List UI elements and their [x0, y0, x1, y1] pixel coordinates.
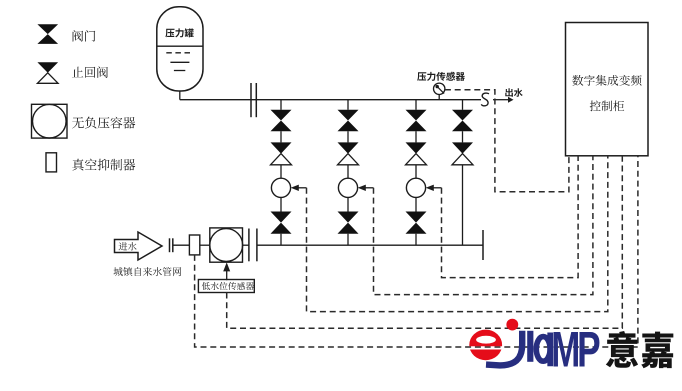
branch 1 riser	[280, 100, 282, 110]
label 出水	[505, 88, 522, 97]
wire	[347, 165, 349, 178]
legend label 止回阀	[72, 66, 108, 78]
vacuum suppressor on inlet	[189, 235, 199, 255]
bottom pipe end cap	[482, 230, 484, 260]
pipe union on inlet	[169, 238, 171, 252]
wire	[173, 244, 190, 246]
wire	[415, 131, 417, 142]
legend check-valve symbol	[37, 62, 58, 73]
wire pump 1 to cabinet (dashed)	[307, 156, 608, 312]
logo letter a (navy)	[536, 337, 550, 362]
wire pump 2 to cabinet (dashed)	[374, 156, 593, 295]
pump 2 control arrow	[366, 187, 374, 189]
wire	[462, 131, 464, 142]
wire	[280, 131, 282, 142]
legend valve symbol	[37, 24, 58, 44]
check valve branch 1	[271, 142, 292, 153]
wire	[415, 197, 417, 211]
wire bypass down	[462, 165, 464, 245]
logo character 意	[606, 331, 638, 368]
branch 4 bypass riser	[462, 100, 464, 110]
branch 3 riser	[415, 100, 417, 110]
pump 1	[271, 178, 290, 197]
wire low water sensor to cabinet (dashed)	[227, 156, 623, 328]
legend vacuum suppressor symbol	[46, 153, 57, 172]
wire	[347, 197, 349, 211]
logo letter P (navy)	[579, 332, 599, 367]
wire	[280, 165, 282, 178]
logo letter e (red)	[469, 330, 502, 361]
wire tank drop	[179, 91, 181, 100]
wire pressure sensor to cabinet (dashed)	[445, 90, 569, 192]
wire	[347, 234, 349, 246]
wire top manifold pipe	[180, 99, 481, 101]
valve branch 4	[452, 110, 473, 131]
inlet arrow 进水	[115, 232, 163, 260]
control cabinet box	[566, 23, 649, 156]
sensor arrow to vessel	[226, 271, 228, 281]
wire	[415, 165, 417, 178]
wire vacuum suppressor to cabinet (dashed)	[195, 156, 638, 347]
wire	[347, 131, 349, 142]
logo letter M (navy)	[553, 332, 578, 367]
flange pair after vessel	[248, 229, 250, 262]
pipe break S symbol	[481, 93, 489, 106]
wire	[415, 234, 417, 246]
low water level sensor box	[198, 280, 254, 293]
wire pump 3 to cabinet (dashed)	[442, 156, 579, 278]
label 低水位传感器	[202, 282, 254, 290]
pump 3 control arrow	[434, 187, 442, 189]
legend no-negative-pressure vessel symbol	[32, 104, 68, 138]
tank separator line	[157, 45, 203, 47]
branch 2 riser	[347, 100, 349, 110]
pump 1 control arrow	[299, 187, 307, 189]
valve branch 1 bottom	[271, 212, 292, 234]
valve branch 2 top	[338, 110, 359, 131]
valve branch 3 top	[406, 110, 427, 131]
wire	[200, 244, 210, 246]
valve branch 3 bottom	[406, 212, 427, 234]
pump 2	[338, 178, 357, 197]
cabinet label 数字集成变频	[572, 75, 641, 86]
pressure sensor gauge	[434, 83, 445, 94]
outlet arrow 出水	[493, 99, 509, 101]
logo j dot (red)	[506, 319, 518, 331]
logo character 嘉	[641, 332, 673, 369]
label 城镇自来水管网	[114, 267, 182, 276]
check valve branch 3	[406, 142, 427, 153]
wire bottom manifold pipe	[257, 244, 483, 246]
label 压力传感器	[417, 72, 465, 81]
wire	[280, 234, 282, 246]
wire	[280, 197, 282, 211]
legend label 无负压容器	[72, 117, 135, 129]
pump 3	[406, 178, 425, 197]
wire	[243, 244, 249, 246]
valve branch 2 bottom	[338, 212, 359, 234]
logo letter j (navy)	[486, 331, 522, 366]
legend label 真空抑制器	[72, 159, 135, 171]
valve branch 1 top	[271, 110, 292, 131]
tank label 压力罐	[165, 28, 193, 37]
cabinet label 控制柜	[590, 100, 625, 111]
check valve branch 4	[452, 142, 473, 153]
tank water level lines	[166, 52, 193, 54]
legend label 阀门	[73, 30, 96, 41]
logo letter i (navy)	[527, 331, 533, 362]
pipe coupling on top pipe	[250, 83, 252, 117]
check valve branch 2	[338, 142, 359, 153]
pressure tank	[157, 7, 203, 91]
label 进水	[119, 242, 137, 251]
no-negative-pressure vessel	[210, 228, 243, 262]
